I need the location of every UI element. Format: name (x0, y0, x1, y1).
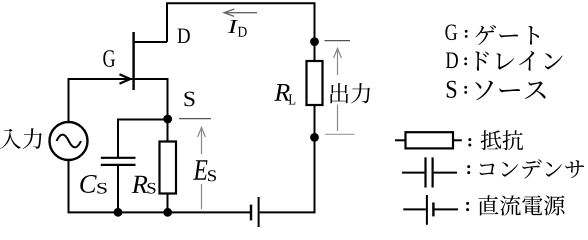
label: ES: S subscript (208, 170, 216, 181)
label: colon for legend DC source row (466, 202, 469, 211)
label: RS: S subscript (148, 183, 156, 194)
annotation: output dimension arrow (334, 48, 342, 131)
capacitor CS: bottom plate (101, 164, 136, 166)
label: D (drain) (178, 29, 190, 43)
label: legend G (445, 24, 457, 40)
wire: right rail from RL bottom down to battery positive (260, 105, 315, 212)
annotation: output dimension top tick (325, 40, 351, 42)
battery V1: positive (long) plate (258, 197, 260, 227)
node: RL top junction dot (310, 37, 319, 46)
label: CS: C (80, 175, 96, 193)
node: S junction dot (163, 115, 172, 124)
label: colon for legend S row (464, 86, 467, 94)
transistor Q1: drain lead (134, 41, 167, 43)
label: teikou (resistor) (481, 130, 523, 150)
annotation: output dimension bottom tick (325, 133, 355, 135)
legend DC source symbol: positive (long) plate (426, 195, 428, 225)
label: G (gate) (103, 50, 115, 67)
label: shutsuryoku (output) (331, 83, 371, 103)
legend capacitor symbol: left lead (402, 172, 424, 174)
legend capacitor symbol: right lead (434, 172, 457, 174)
label: S (source) (184, 92, 194, 107)
annotation: ID current arrow (224, 9, 257, 16)
capacitor CS: top plate (101, 157, 136, 159)
label: colon for legend resistor row (468, 138, 471, 146)
wire: RS top lead (167, 119, 169, 142)
legend DC source symbol: negative (short) plate (432, 203, 434, 217)
label: nyuuryoku (input) (0, 128, 42, 149)
transistor Q1: channel bar (132, 32, 134, 90)
wire: drain riser + top rail + right rail down to RL top (167, 3, 315, 61)
label: legend S (447, 81, 457, 98)
legend resistor symbol: left lead (395, 139, 406, 141)
legend capacitor symbol: right plate (432, 157, 434, 187)
legend DC source symbol: left lead (403, 208, 426, 210)
label: RL: L subscript (289, 94, 296, 104)
wire: bottom rail from battery negative to AC source (69, 160, 251, 212)
annotation: ES dimension top tick (179, 118, 211, 120)
AC source: sine wave (57, 135, 82, 148)
node: RL bottom junction dot (310, 133, 319, 142)
node: CS bottom junction dot (114, 208, 123, 217)
battery V1: negative (short) plate (250, 205, 252, 221)
wire: CS bottom lead to bottom rail (117, 166, 119, 213)
label: legend D (446, 52, 458, 68)
label: chokuryuu dengen (DC source) (478, 195, 564, 215)
transistor Q1: gate arrowhead (120, 74, 131, 83)
legend resistor symbol: right lead (453, 139, 462, 141)
AC source: circle (50, 122, 88, 160)
annotation: ES dimension arrow (198, 127, 206, 209)
label: geeto (gate) (475, 25, 539, 45)
resistor RL: body (307, 61, 323, 105)
node: RS bottom junction dot (163, 208, 172, 217)
label: RS: R (132, 176, 148, 193)
label: colon for legend capacitor row (467, 165, 470, 174)
label: colon for legend G row (465, 30, 468, 38)
wire: RS bottom lead (167, 194, 169, 213)
label: kondensa (capacitor) (480, 159, 584, 178)
wire: AC source top riser + gate lead (69, 79, 133, 122)
resistor RS: body (160, 142, 177, 194)
label: ID current: D subscript (238, 27, 247, 37)
legend capacitor symbol: left plate (424, 157, 426, 187)
label: soosu (source) (475, 81, 545, 100)
legend DC source symbol: right lead (435, 208, 459, 210)
label: RL: R (274, 84, 289, 101)
label: CS: S subscript (97, 183, 106, 194)
label: dorein (drain) (475, 51, 562, 71)
wire: source node horizontal to CS branch (118, 120, 168, 158)
transistor Q1: source lead (134, 79, 168, 119)
legend resistor symbol: body (406, 132, 454, 148)
label: ID current: I (228, 20, 238, 33)
label: ES: E (193, 160, 207, 179)
label: colon for legend D row (464, 57, 467, 65)
